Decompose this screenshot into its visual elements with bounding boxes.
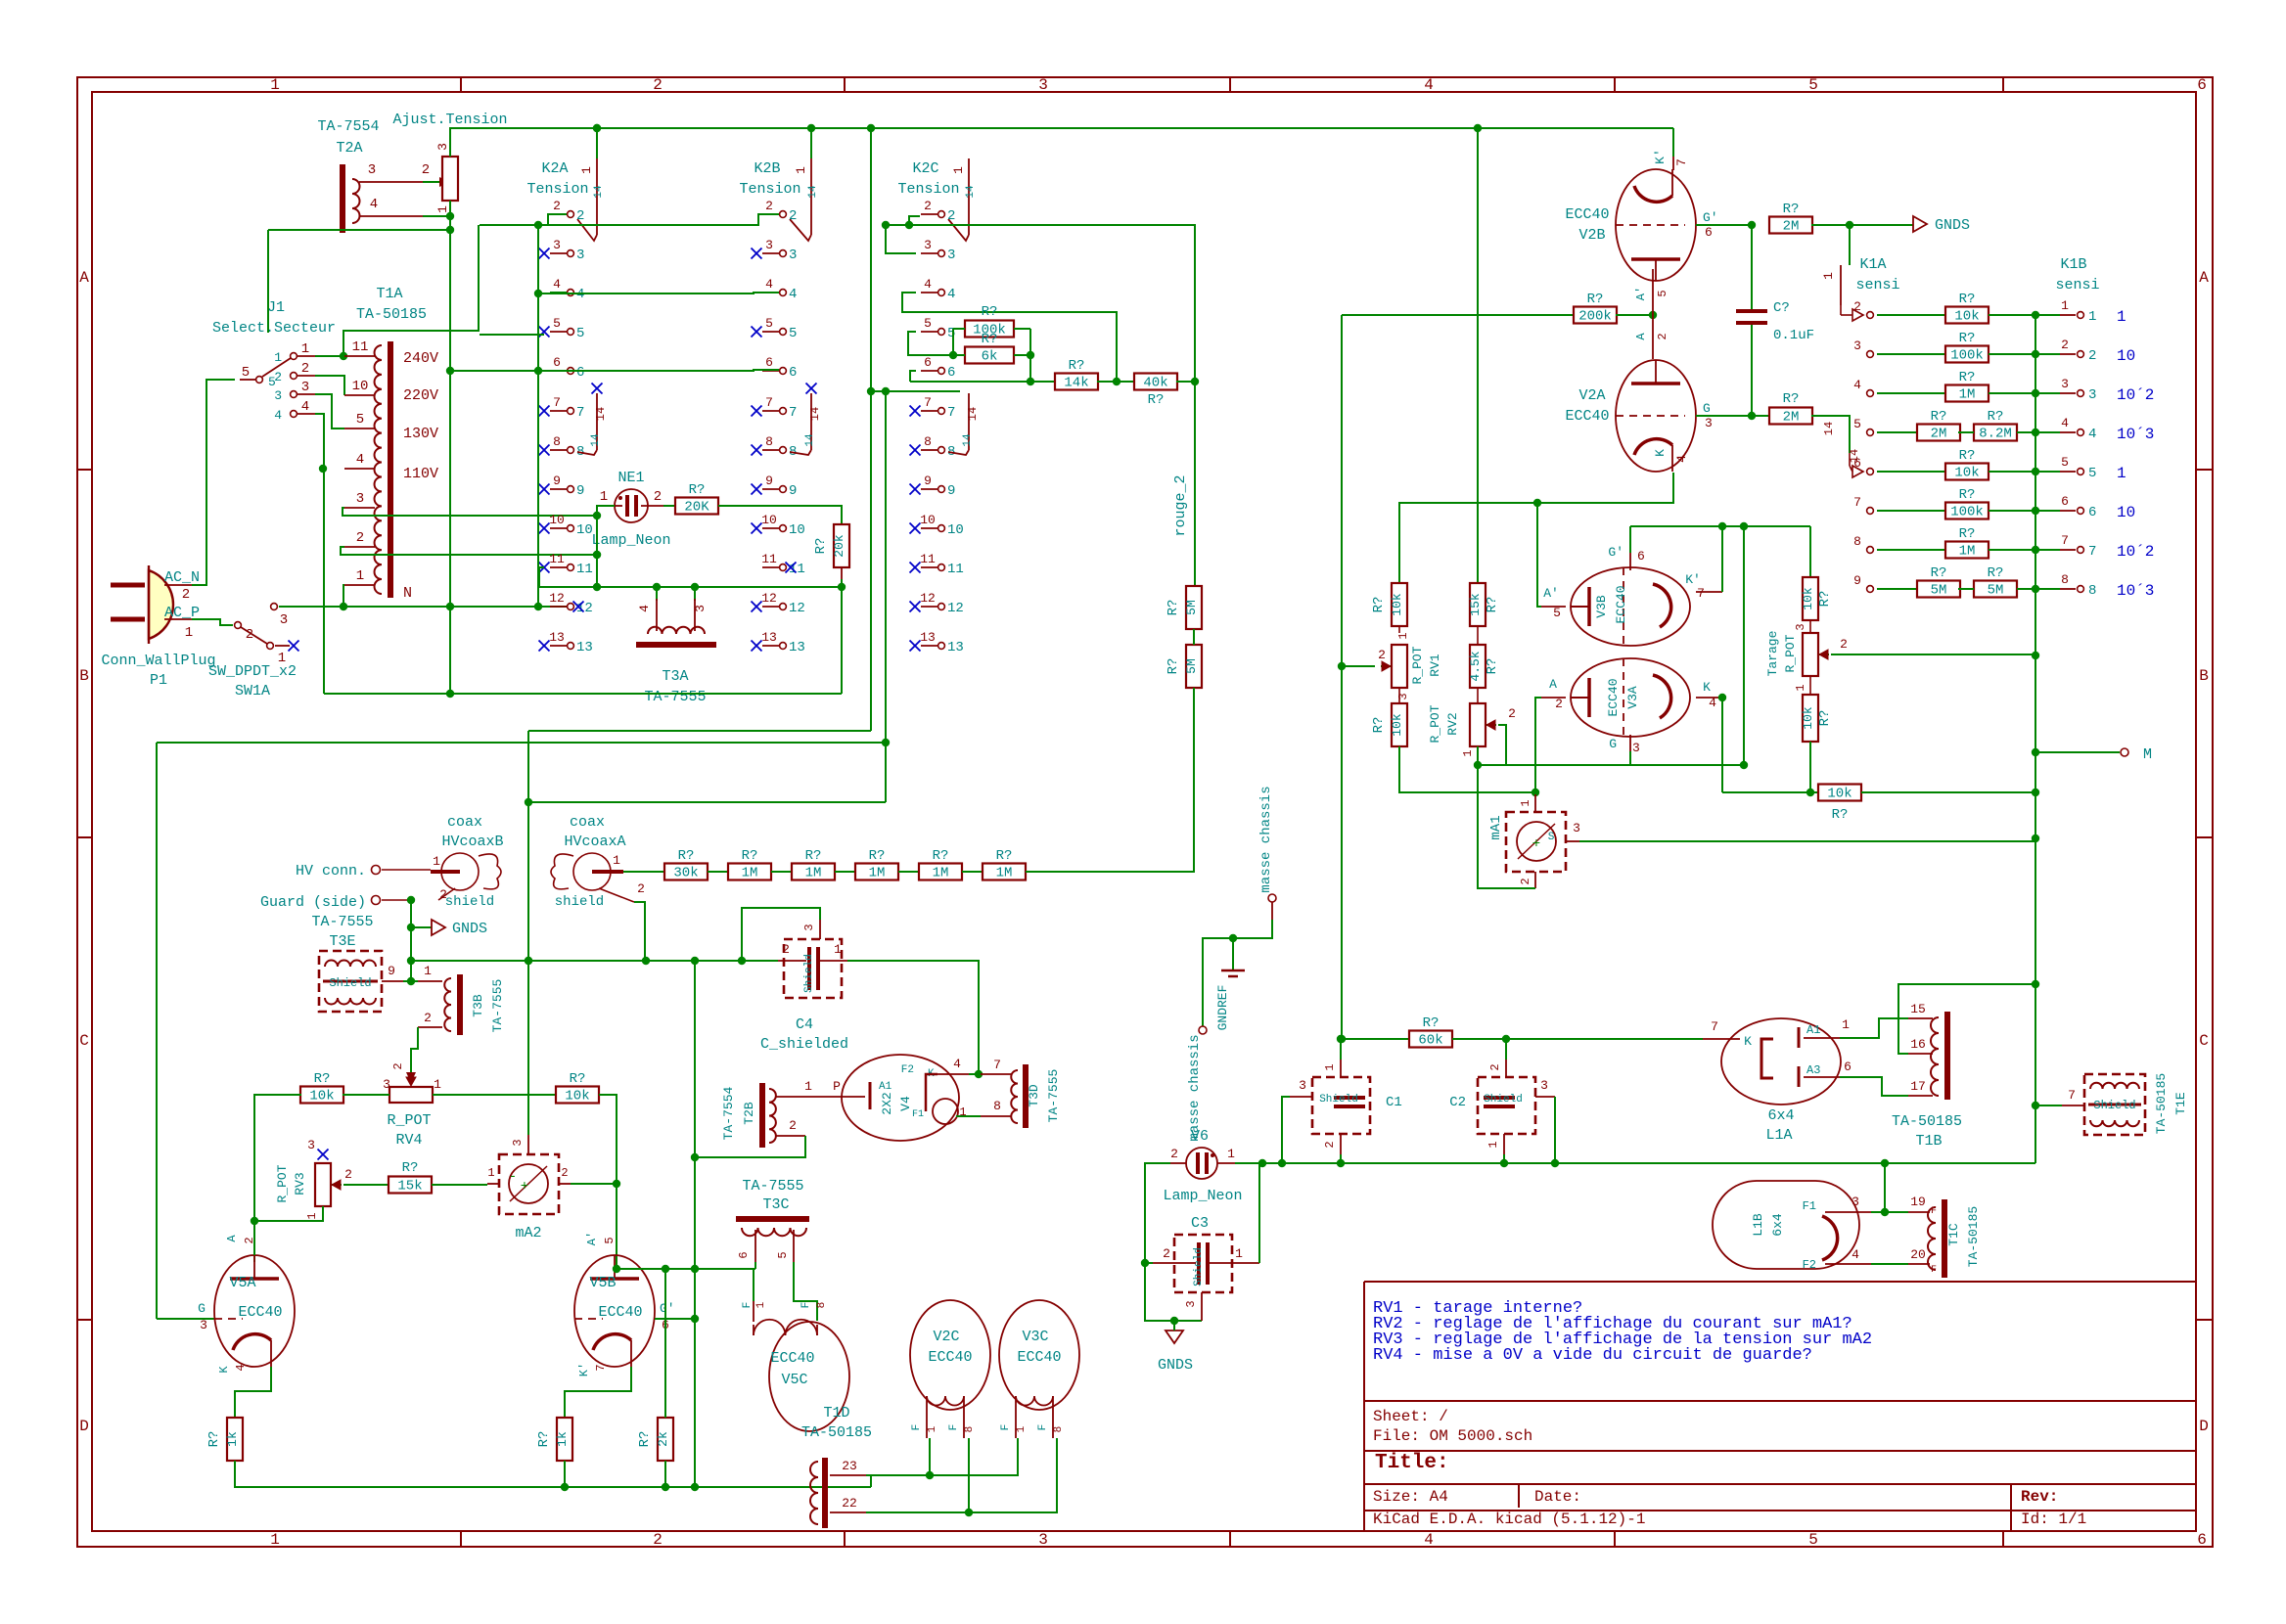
svg-text:6x4: 6x4 bbox=[1767, 1107, 1794, 1124]
svg-text:3: 3 bbox=[301, 380, 309, 395]
svg-text:A: A bbox=[79, 269, 89, 287]
svg-text:2: 2 bbox=[182, 587, 190, 603]
svg-text:ECC40: ECC40 bbox=[928, 1349, 972, 1366]
svg-text:R_POT: R_POT bbox=[387, 1112, 431, 1129]
svg-text:4: 4 bbox=[1424, 1531, 1434, 1549]
svg-text:3: 3 bbox=[553, 238, 561, 252]
svg-text:Size: A4: Size: A4 bbox=[1373, 1488, 1448, 1506]
svg-text:F: F bbox=[1931, 1265, 1937, 1276]
svg-text:2k: 2k bbox=[656, 1431, 670, 1447]
svg-text:10k: 10k bbox=[1390, 713, 1404, 737]
svg-text:R?: R? bbox=[1485, 597, 1500, 613]
svg-text:20k: 20k bbox=[832, 534, 846, 558]
svg-text:F: F bbox=[742, 1302, 754, 1309]
svg-text:R?: R? bbox=[869, 848, 886, 864]
svg-text:2M: 2M bbox=[1783, 410, 1800, 426]
svg-text:1: 1 bbox=[305, 1212, 319, 1219]
svg-text:A: A bbox=[2199, 269, 2209, 287]
svg-text:9: 9 bbox=[765, 474, 773, 488]
svg-text:4: 4 bbox=[953, 1057, 961, 1071]
svg-text:6: 6 bbox=[2088, 505, 2096, 520]
svg-text:T1B: T1B bbox=[1915, 1133, 1942, 1150]
svg-text:10: 10 bbox=[947, 522, 964, 538]
svg-text:3: 3 bbox=[274, 388, 282, 403]
svg-text:2: 2 bbox=[1555, 697, 1563, 711]
svg-text:ECC40: ECC40 bbox=[770, 1350, 814, 1367]
svg-text:11: 11 bbox=[352, 339, 369, 355]
svg-text:2: 2 bbox=[1163, 1246, 1170, 1261]
svg-text:4: 4 bbox=[924, 277, 932, 292]
svg-text:Sheet: /: Sheet: / bbox=[1373, 1408, 1448, 1425]
svg-text:T1C: T1C bbox=[1946, 1223, 1961, 1246]
svg-text:4: 4 bbox=[2061, 416, 2069, 430]
svg-text:G: G bbox=[198, 1301, 206, 1316]
svg-text:R?: R? bbox=[1832, 807, 1849, 823]
svg-text:2X2: 2X2 bbox=[880, 1092, 894, 1114]
svg-text:GNDS: GNDS bbox=[1935, 217, 1970, 234]
svg-text:V6: V6 bbox=[1191, 1128, 1209, 1145]
svg-text:A: A bbox=[1634, 333, 1648, 340]
svg-text:sensi: sensi bbox=[1855, 277, 1899, 293]
svg-text:ECC40: ECC40 bbox=[598, 1304, 642, 1321]
svg-text:3: 3 bbox=[200, 1318, 207, 1332]
svg-text:6: 6 bbox=[2197, 1531, 2207, 1549]
svg-text:RV1: RV1 bbox=[1428, 654, 1442, 677]
svg-text:2: 2 bbox=[789, 1118, 797, 1133]
svg-text:TA-50185: TA-50185 bbox=[1966, 1206, 1981, 1267]
svg-text:-: - bbox=[509, 1169, 517, 1185]
svg-text:3: 3 bbox=[1184, 1300, 1198, 1307]
svg-text:30k: 30k bbox=[673, 866, 698, 881]
svg-text:K2B: K2B bbox=[754, 160, 780, 177]
svg-text:15k: 15k bbox=[397, 1179, 422, 1195]
svg-text:5M: 5M bbox=[1184, 600, 1199, 615]
svg-text:ECC40: ECC40 bbox=[1565, 206, 1609, 223]
svg-text:C2: C2 bbox=[1449, 1095, 1466, 1110]
svg-text:2: 2 bbox=[782, 942, 790, 957]
svg-text:3: 3 bbox=[1038, 76, 1048, 94]
svg-text:2: 2 bbox=[1323, 1141, 1337, 1148]
svg-text:B: B bbox=[2199, 667, 2209, 685]
svg-text:6: 6 bbox=[553, 355, 561, 370]
svg-text:TA-7555: TA-7555 bbox=[490, 979, 505, 1033]
svg-text:R?: R? bbox=[1988, 409, 2004, 425]
svg-text:A': A' bbox=[1634, 287, 1648, 300]
svg-text:T1D: T1D bbox=[823, 1405, 849, 1421]
svg-text:3: 3 bbox=[1038, 1531, 1048, 1549]
svg-text:P: P bbox=[833, 1079, 841, 1094]
svg-text:A1: A1 bbox=[1806, 1023, 1820, 1037]
svg-text:7: 7 bbox=[1697, 586, 1705, 601]
svg-text:5: 5 bbox=[1808, 76, 1818, 94]
svg-text:T1E: T1E bbox=[2173, 1092, 2188, 1115]
svg-text:3: 3 bbox=[368, 162, 376, 178]
svg-text:3: 3 bbox=[511, 1139, 525, 1146]
svg-text:10: 10 bbox=[576, 522, 593, 538]
svg-text:8: 8 bbox=[2088, 583, 2096, 599]
svg-text:9: 9 bbox=[553, 474, 561, 488]
svg-text:13: 13 bbox=[789, 640, 805, 655]
svg-text:4.5k: 4.5k bbox=[1468, 651, 1483, 681]
svg-text:GNDS: GNDS bbox=[452, 921, 487, 937]
svg-text:HV conn.: HV conn. bbox=[296, 863, 366, 880]
svg-text:R_POT: R_POT bbox=[1428, 704, 1442, 743]
svg-text:2: 2 bbox=[2061, 338, 2069, 352]
svg-text:R?: R? bbox=[1783, 202, 1800, 217]
svg-text:sensi: sensi bbox=[2055, 277, 2099, 293]
svg-text:R?: R? bbox=[933, 848, 949, 864]
svg-text:100k: 100k bbox=[1950, 505, 1984, 520]
svg-text:2: 2 bbox=[246, 627, 253, 643]
svg-text:Shield: Shield bbox=[1193, 1247, 1205, 1286]
svg-text:5: 5 bbox=[2061, 455, 2069, 470]
svg-text:7: 7 bbox=[789, 405, 797, 421]
svg-text:Shield: Shield bbox=[1484, 1094, 1523, 1105]
svg-text:F2: F2 bbox=[1803, 1258, 1816, 1272]
svg-text:1M: 1M bbox=[1959, 387, 1976, 403]
svg-text:G: G bbox=[1703, 401, 1711, 416]
svg-text:10k: 10k bbox=[1954, 466, 1979, 481]
svg-text:14k: 14k bbox=[1064, 376, 1088, 391]
svg-text:5: 5 bbox=[553, 316, 561, 331]
svg-text:6k: 6k bbox=[982, 349, 998, 365]
svg-text:4: 4 bbox=[789, 287, 797, 302]
svg-text:8: 8 bbox=[1053, 1426, 1065, 1433]
svg-text:3: 3 bbox=[1852, 1195, 1859, 1209]
svg-text:masse chassis: masse chassis bbox=[1187, 1034, 1203, 1141]
svg-text:11: 11 bbox=[549, 552, 565, 566]
svg-text:Ajust.Tension: Ajust.Tension bbox=[392, 112, 507, 128]
svg-text:100k: 100k bbox=[1950, 348, 1984, 364]
svg-text:200k: 200k bbox=[1578, 309, 1612, 325]
svg-text:3: 3 bbox=[383, 1077, 390, 1092]
svg-text:C?: C? bbox=[1773, 300, 1790, 316]
svg-text:1: 1 bbox=[600, 489, 608, 505]
svg-text:T3C: T3C bbox=[762, 1196, 789, 1213]
svg-text:F: F bbox=[1037, 1424, 1049, 1431]
svg-text:1: 1 bbox=[433, 854, 440, 869]
svg-text:23: 23 bbox=[842, 1459, 857, 1473]
svg-text:3: 3 bbox=[1540, 1078, 1548, 1093]
svg-text:10´3: 10´3 bbox=[2117, 582, 2154, 600]
svg-text:Tension: Tension bbox=[526, 181, 588, 198]
svg-text:R?: R? bbox=[805, 848, 822, 864]
svg-text:T2A: T2A bbox=[336, 140, 362, 157]
svg-text:2: 2 bbox=[356, 530, 364, 546]
svg-text:R?: R? bbox=[982, 332, 998, 347]
svg-text:V5C: V5C bbox=[781, 1372, 807, 1388]
svg-text:14: 14 bbox=[965, 185, 977, 199]
svg-text:7: 7 bbox=[576, 405, 584, 421]
svg-text:T3A: T3A bbox=[662, 668, 688, 685]
svg-text:6: 6 bbox=[576, 365, 584, 381]
svg-text:20K: 20K bbox=[684, 500, 709, 516]
svg-text:G': G' bbox=[660, 1301, 675, 1316]
svg-text:R?: R? bbox=[742, 848, 758, 864]
svg-text:10: 10 bbox=[761, 513, 777, 527]
svg-text:D: D bbox=[79, 1418, 89, 1435]
svg-text:V2C: V2C bbox=[933, 1329, 959, 1345]
svg-text:1: 1 bbox=[274, 350, 282, 365]
svg-text:Guard (side): Guard (side) bbox=[260, 894, 366, 911]
svg-text:T3D: T3D bbox=[1027, 1084, 1041, 1107]
svg-text:T3E: T3E bbox=[329, 933, 355, 950]
svg-text:1: 1 bbox=[2117, 308, 2126, 326]
svg-text:10k: 10k bbox=[309, 1089, 334, 1105]
svg-text:5: 5 bbox=[776, 1251, 790, 1258]
svg-text:K: K bbox=[217, 1366, 231, 1374]
svg-text:Lamp_Neon: Lamp_Neon bbox=[1163, 1188, 1242, 1204]
svg-text:K2C: K2C bbox=[912, 160, 938, 177]
svg-text:14: 14 bbox=[808, 407, 822, 421]
svg-text:0.1uF: 0.1uF bbox=[1773, 328, 1814, 343]
svg-text:K': K' bbox=[577, 1363, 591, 1376]
svg-text:10: 10 bbox=[549, 513, 565, 527]
svg-text:R?: R? bbox=[1959, 526, 1976, 542]
svg-text:9: 9 bbox=[576, 483, 584, 499]
svg-text:R?: R? bbox=[1988, 565, 2004, 581]
svg-text:TA-50185: TA-50185 bbox=[2154, 1073, 2169, 1134]
svg-text:Shield: Shield bbox=[2093, 1099, 2135, 1112]
svg-text:10: 10 bbox=[789, 522, 805, 538]
svg-text:K: K bbox=[1744, 1034, 1752, 1049]
svg-text:3: 3 bbox=[789, 248, 797, 263]
svg-text:13: 13 bbox=[549, 630, 565, 645]
svg-text:2: 2 bbox=[765, 199, 773, 213]
svg-text:Title:: Title: bbox=[1375, 1452, 1449, 1474]
svg-text:2M: 2M bbox=[1783, 219, 1800, 235]
svg-text:8: 8 bbox=[924, 434, 932, 449]
svg-text:6: 6 bbox=[924, 355, 932, 370]
svg-text:mA1: mA1 bbox=[1488, 815, 1504, 839]
svg-text:C1: C1 bbox=[1386, 1095, 1402, 1110]
svg-text:Select.Secteur: Select.Secteur bbox=[212, 320, 336, 337]
svg-text:R?: R? bbox=[570, 1071, 586, 1087]
svg-text:1: 1 bbox=[1323, 1063, 1337, 1070]
svg-text:6: 6 bbox=[765, 355, 773, 370]
svg-text:GNDS: GNDS bbox=[1158, 1357, 1193, 1374]
svg-text:R?: R? bbox=[1959, 487, 1976, 503]
svg-text:7: 7 bbox=[2088, 544, 2096, 560]
svg-text:14: 14 bbox=[807, 185, 819, 199]
svg-text:R?: R? bbox=[1069, 358, 1085, 374]
svg-text:4: 4 bbox=[553, 277, 561, 292]
svg-text:masse chassis: masse chassis bbox=[1258, 786, 1274, 892]
svg-text:R_POT: R_POT bbox=[275, 1164, 290, 1202]
svg-text:13: 13 bbox=[947, 640, 964, 655]
svg-text:1: 1 bbox=[1486, 1141, 1500, 1148]
svg-text:14: 14 bbox=[804, 433, 816, 447]
svg-text:G': G' bbox=[1608, 545, 1623, 560]
svg-text:4: 4 bbox=[234, 1364, 248, 1371]
svg-text:2: 2 bbox=[1840, 637, 1848, 652]
svg-text:5M: 5M bbox=[1988, 583, 2004, 599]
svg-text:7: 7 bbox=[594, 1364, 608, 1371]
svg-text:RV4: RV4 bbox=[395, 1132, 422, 1149]
svg-text:A: A bbox=[225, 1235, 239, 1242]
svg-text:1: 1 bbox=[487, 1166, 494, 1180]
svg-text:1: 1 bbox=[270, 1531, 280, 1549]
svg-text:6: 6 bbox=[1705, 225, 1713, 240]
svg-text:14: 14 bbox=[593, 185, 605, 199]
svg-text:NE1: NE1 bbox=[617, 470, 644, 486]
svg-text:ECC40: ECC40 bbox=[238, 1304, 282, 1321]
svg-text:2: 2 bbox=[789, 208, 797, 224]
svg-text:3: 3 bbox=[1573, 821, 1580, 835]
svg-text:6: 6 bbox=[737, 1251, 751, 1258]
svg-text:8: 8 bbox=[964, 1426, 976, 1433]
svg-text:RV2: RV2 bbox=[1445, 712, 1460, 735]
svg-text:2: 2 bbox=[1170, 1147, 1178, 1161]
svg-text:V5B: V5B bbox=[589, 1275, 616, 1291]
svg-text:4: 4 bbox=[1852, 1247, 1859, 1262]
svg-text:2: 2 bbox=[924, 199, 932, 213]
svg-text:Conn_WallPlug: Conn_WallPlug bbox=[101, 653, 215, 669]
svg-text:12: 12 bbox=[549, 591, 565, 606]
svg-text:Lamp_Neon: Lamp_Neon bbox=[591, 532, 670, 549]
svg-text:1: 1 bbox=[2117, 465, 2126, 482]
svg-text:TA-7555: TA-7555 bbox=[644, 689, 706, 705]
svg-text:GNDREF: GNDREF bbox=[1215, 985, 1230, 1031]
svg-text:R?: R? bbox=[996, 848, 1013, 864]
svg-text:1: 1 bbox=[927, 1425, 938, 1432]
svg-text:Rev:: Rev: bbox=[2021, 1488, 2058, 1506]
svg-text:22: 22 bbox=[842, 1496, 857, 1511]
svg-text:Tension: Tension bbox=[739, 181, 800, 198]
svg-text:V4: V4 bbox=[898, 1096, 913, 1111]
svg-text:R?: R? bbox=[1166, 600, 1181, 616]
svg-text:R?: R? bbox=[1817, 710, 1833, 727]
svg-text:C: C bbox=[79, 1032, 89, 1050]
svg-text:1: 1 bbox=[2088, 309, 2096, 325]
svg-text:G: G bbox=[1609, 737, 1617, 751]
svg-text:3: 3 bbox=[280, 612, 288, 628]
svg-text:1: 1 bbox=[434, 1077, 441, 1092]
svg-text:3: 3 bbox=[1794, 623, 1807, 630]
svg-text:S: S bbox=[1548, 832, 1555, 843]
svg-text:3: 3 bbox=[435, 143, 450, 151]
svg-text:130V: 130V bbox=[403, 426, 438, 442]
svg-text:coax: coax bbox=[570, 814, 605, 831]
svg-text:K2A: K2A bbox=[541, 160, 568, 177]
svg-text:5M: 5M bbox=[1184, 658, 1199, 674]
svg-text:R?: R? bbox=[1959, 331, 1976, 346]
svg-text:3: 3 bbox=[1299, 1078, 1306, 1093]
svg-text:5M: 5M bbox=[1931, 583, 1947, 599]
svg-text:5: 5 bbox=[765, 316, 773, 331]
svg-text:1: 1 bbox=[1016, 1425, 1028, 1432]
svg-text:AC_N: AC_N bbox=[164, 569, 200, 586]
svg-text:TA-7555: TA-7555 bbox=[1046, 1069, 1061, 1123]
svg-text:2: 2 bbox=[1656, 333, 1669, 339]
svg-text:3: 3 bbox=[576, 248, 584, 263]
svg-text:6: 6 bbox=[1844, 1060, 1852, 1074]
svg-text:4: 4 bbox=[356, 452, 364, 468]
svg-text:14: 14 bbox=[966, 407, 980, 421]
svg-text:R?: R? bbox=[982, 304, 998, 320]
svg-text:F1: F1 bbox=[1803, 1199, 1816, 1213]
svg-text:2: 2 bbox=[576, 208, 584, 224]
svg-text:1: 1 bbox=[270, 76, 280, 94]
svg-text:14: 14 bbox=[594, 407, 608, 421]
svg-text:13: 13 bbox=[576, 640, 593, 655]
svg-text:7: 7 bbox=[765, 395, 773, 410]
svg-text:A: A bbox=[1549, 677, 1557, 692]
svg-text:File: OM 5000.sch: File: OM 5000.sch bbox=[1373, 1427, 1532, 1445]
svg-text:12: 12 bbox=[789, 601, 805, 616]
svg-text:2: 2 bbox=[424, 1011, 432, 1025]
svg-text:3: 3 bbox=[2061, 377, 2069, 391]
svg-text:14: 14 bbox=[962, 433, 974, 447]
svg-text:F1: F1 bbox=[912, 1109, 924, 1120]
svg-text:10: 10 bbox=[920, 513, 936, 527]
svg-text:R_POT: R_POT bbox=[1783, 634, 1798, 672]
svg-text:2: 2 bbox=[422, 162, 430, 178]
svg-text:L1B: L1B bbox=[1751, 1213, 1765, 1237]
svg-text:A3: A3 bbox=[1806, 1063, 1820, 1077]
svg-text:2: 2 bbox=[947, 208, 955, 224]
svg-text:5: 5 bbox=[356, 412, 364, 428]
svg-text:ECC40: ECC40 bbox=[1614, 585, 1628, 623]
svg-text:4: 4 bbox=[2088, 427, 2096, 442]
svg-text:ECC40: ECC40 bbox=[1017, 1349, 1061, 1366]
svg-text:5: 5 bbox=[1808, 1531, 1818, 1549]
svg-text:10´2: 10´2 bbox=[2117, 543, 2154, 561]
svg-text:7: 7 bbox=[947, 405, 955, 421]
svg-text:R?: R? bbox=[1423, 1015, 1440, 1031]
svg-text:10k: 10k bbox=[1801, 706, 1815, 730]
svg-text:5: 5 bbox=[576, 326, 584, 341]
svg-text:3: 3 bbox=[947, 248, 955, 263]
svg-text:R_POT: R_POT bbox=[1410, 646, 1425, 684]
svg-text:4: 4 bbox=[370, 197, 378, 212]
svg-text:1M: 1M bbox=[933, 866, 949, 881]
svg-text:1M: 1M bbox=[742, 866, 758, 881]
svg-text:mA2: mA2 bbox=[515, 1225, 541, 1241]
svg-text:10k: 10k bbox=[1827, 787, 1852, 802]
svg-text:3: 3 bbox=[1396, 693, 1410, 699]
svg-text:2: 2 bbox=[1508, 706, 1516, 721]
svg-text:T1A: T1A bbox=[376, 286, 402, 302]
svg-text:HVcoaxB: HVcoaxB bbox=[441, 834, 503, 850]
svg-text:8.2M: 8.2M bbox=[1979, 427, 2012, 442]
svg-text:KiCad E.D.A. kicad (5.1.12)-1: KiCad E.D.A. kicad (5.1.12)-1 bbox=[1373, 1511, 1645, 1528]
svg-text:12: 12 bbox=[576, 601, 593, 616]
svg-text:R?: R? bbox=[1371, 597, 1387, 613]
svg-text:7: 7 bbox=[993, 1058, 1001, 1072]
svg-text:5: 5 bbox=[1656, 290, 1669, 296]
svg-text:9: 9 bbox=[388, 964, 395, 978]
svg-text:7: 7 bbox=[553, 395, 561, 410]
svg-text:F: F bbox=[1931, 1206, 1937, 1217]
svg-text:F: F bbox=[800, 1302, 812, 1309]
svg-text:1: 1 bbox=[1519, 799, 1532, 806]
svg-text:R?: R? bbox=[1931, 409, 1947, 425]
svg-text:2: 2 bbox=[553, 199, 561, 213]
svg-text:V3A: V3A bbox=[1625, 686, 1640, 709]
svg-text:shield: shield bbox=[555, 894, 604, 910]
svg-text:2: 2 bbox=[344, 1167, 352, 1182]
svg-text:40k: 40k bbox=[1143, 376, 1167, 391]
svg-text:F: F bbox=[911, 1424, 923, 1431]
svg-text:P1: P1 bbox=[150, 672, 167, 689]
svg-text:C_shielded: C_shielded bbox=[760, 1036, 848, 1053]
svg-text:10: 10 bbox=[2117, 347, 2135, 365]
svg-text:F: F bbox=[1000, 1424, 1012, 1431]
svg-text:7: 7 bbox=[2061, 533, 2069, 548]
svg-text:coax: coax bbox=[447, 814, 482, 831]
svg-text:1: 1 bbox=[1821, 272, 1836, 280]
